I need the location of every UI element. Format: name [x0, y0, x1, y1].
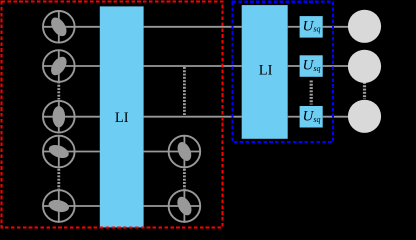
svg-text:LI: LI — [115, 110, 129, 126]
svg-text:LI: LI — [259, 62, 273, 78]
